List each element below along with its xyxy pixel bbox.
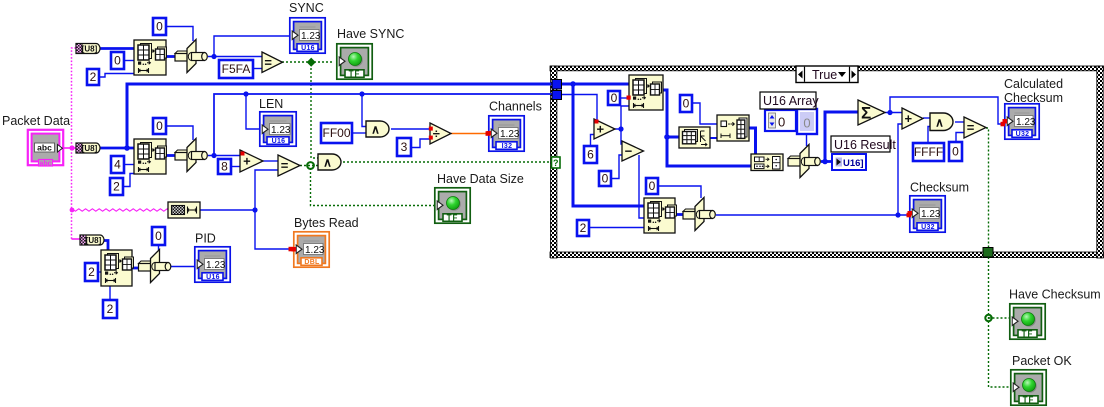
wire: LEN inside case to Add 3	[561, 95, 597, 122]
svg-text:1.23: 1.23	[305, 245, 325, 256]
svg-text:8: 8	[221, 160, 228, 174]
label PID	[195, 232, 216, 246]
svg-text:0: 0	[778, 115, 785, 130]
quotient node	[429, 123, 451, 144]
label Have Checksum	[1009, 288, 1101, 302]
wire: constant 0 to Array Subset 1 index	[124, 60, 134, 62]
string-to-byte-array node 2	[76, 143, 100, 153]
wire: Equal 2 result to Have Data Size	[311, 168, 435, 206]
type cast node 1	[175, 40, 207, 73]
junction: byte array split	[124, 145, 130, 151]
svg-text:1.23: 1.23	[500, 129, 520, 140]
svg-text:FF00: FF00	[322, 126, 350, 140]
wire: constant F5FA to Equal 1	[253, 68, 262, 70]
svg-text:0: 0	[155, 229, 162, 243]
svg-text:+: +	[243, 154, 251, 169]
tunnel: byte array into case	[552, 80, 562, 90]
junction: Add 3 output	[618, 126, 623, 131]
wire: Array Subset 2 to Type Cast 2	[166, 154, 176, 157]
coercion dot Channels	[486, 131, 491, 136]
case structure border	[550, 66, 1104, 258]
wire: Type Cast 3 to Checksum indicator	[716, 214, 910, 216]
svg-text:FFFF: FFFF	[914, 145, 943, 159]
wire: constant 0 to Insert Into Array	[692, 103, 717, 124]
equal node 3	[964, 117, 986, 138]
wire: Type Cast 1 to Equal 1	[214, 56, 262, 58]
svg-text:−: −	[625, 144, 633, 159]
svg-text:Packet OK: Packet OK	[1012, 354, 1072, 368]
svg-text:2: 2	[113, 180, 120, 194]
junction: pink wire to String Length branch	[70, 208, 75, 213]
wire: constant 0 to Type Cast 2 type input	[166, 126, 193, 140]
array subset node 1	[134, 40, 167, 75]
constant 0 (insert into array)	[680, 95, 692, 112]
svg-text:F5FA: F5FA	[222, 62, 251, 76]
case selector label True	[796, 66, 858, 83]
svg-text:0: 0	[683, 97, 690, 111]
wire: checksum value to Add 2	[898, 124, 902, 215]
indicator Calculated Checksum	[1003, 104, 1040, 139]
constant 0 (subtract)	[599, 171, 611, 186]
wire: Array Subset 4 to Type Cast 3	[675, 213, 684, 216]
svg-text:0: 0	[952, 145, 959, 159]
indicator Packet OK	[1011, 370, 1046, 405]
label Have Data Size	[437, 172, 524, 186]
wire: Equal 2 to And 2	[300, 165, 318, 167]
svg-text:I32: I32	[502, 143, 513, 150]
svg-text:Have Data Size: Have Data Size	[437, 172, 524, 186]
wire: constant 8 to Add 1	[231, 166, 240, 168]
label Calculated Checksum line1	[1004, 77, 1063, 91]
svg-text:abc: abc	[39, 160, 51, 167]
add node 1	[240, 150, 263, 172]
constant 0 (subset 3 index)	[608, 91, 620, 105]
svg-text:1.23: 1.23	[921, 209, 941, 220]
svg-text:U16 Array: U16 Array	[763, 94, 819, 108]
constant 0 (type cast 2)	[153, 118, 166, 134]
wire: Type Cast 2 to Add 1	[208, 155, 240, 157]
wire: U16 array to Sum	[825, 112, 858, 162]
string-to-byte-array node 3	[80, 235, 104, 245]
wire: Insert Into Array to Interleave	[749, 128, 756, 154]
label LEN	[259, 97, 283, 111]
svg-text:∧: ∧	[371, 123, 380, 137]
label Packet Data	[2, 114, 70, 128]
junction: Sum output split	[887, 110, 892, 115]
label SYNC	[289, 1, 324, 15]
junction: pink wire at Packet Data branch	[69, 145, 74, 150]
constant 2 (row2 length)	[110, 178, 123, 195]
wire: Add 3 to Array Subset 3 length	[615, 106, 629, 129]
wire: Subtract to Array Subset 4 index	[639, 155, 644, 218]
type cast node 4	[788, 145, 820, 178]
svg-text:Checksum: Checksum	[1004, 91, 1063, 105]
wire: constant 2 to Array Subset 1 length	[99, 74, 134, 78]
wire: LEN branch to LEN indicator	[246, 94, 259, 129]
svg-text:U16: U16	[301, 45, 315, 52]
reshape array node	[679, 127, 710, 148]
constant 2 (subset 5 index)	[85, 263, 98, 281]
wire: Add 2 to And 3	[923, 117, 930, 119]
svg-text:Bytes Read: Bytes Read	[294, 216, 359, 230]
constant 4 (row2 index)	[111, 156, 124, 173]
svg-text:Packet Data: Packet Data	[2, 114, 70, 128]
svg-text:0: 0	[611, 91, 618, 105]
tunnel: case selector terminal	[552, 157, 561, 168]
constant 0 (equal 3)	[949, 142, 962, 161]
svg-text:?: ?	[553, 158, 559, 168]
wire: Type Cast 6 to PID indicator	[171, 266, 196, 268]
svg-text:1.23: 1.23	[271, 125, 291, 136]
wire: Equal 1 result down to And 2	[311, 64, 318, 158]
constant F5FA	[219, 60, 253, 78]
indicator Have SYNC	[337, 44, 372, 79]
add node 3	[594, 119, 615, 139]
junction: Type Cast 4 output split	[822, 159, 828, 165]
junction: boolean wire at Equal 1 output	[307, 58, 316, 67]
svg-text:0: 0	[803, 116, 810, 131]
control Packet Data	[28, 130, 63, 168]
wire: array branch to Reshape Array	[667, 136, 679, 139]
svg-text:Σ: Σ	[861, 104, 871, 123]
svg-text:U16: U16	[272, 138, 286, 145]
svg-text:True: True	[812, 68, 837, 82]
array subset node 3	[629, 75, 663, 110]
junction: boolean wire at Equal 2 output	[307, 162, 314, 169]
wire: constant 2 to Array Subset 5 index	[98, 271, 101, 273]
constant FF00	[321, 123, 352, 143]
wire: constant 2 to Array Subset 4 length	[589, 227, 644, 229]
wire: Array Subset 1 to Type Cast 1	[166, 55, 176, 58]
label Channels	[489, 100, 542, 114]
indicator Have Data Size	[435, 188, 470, 223]
wire: string branch to String Length	[72, 209, 168, 211]
wire: Type Cast 1 to SYNC indicator	[208, 36, 289, 57]
svg-text:0: 0	[602, 172, 609, 186]
junction: Type Cast 2 output	[211, 153, 216, 158]
coercion dot Bytes Read	[289, 247, 294, 252]
svg-text:=: =	[264, 55, 272, 70]
wire: byte array inside case to Array Subset 3	[561, 83, 629, 86]
and node 3	[930, 113, 953, 131]
svg-text:Channels: Channels	[489, 100, 542, 114]
svg-text:2: 2	[107, 302, 114, 316]
svg-text:1.23: 1.23	[206, 260, 226, 271]
equal node 2	[278, 155, 300, 176]
wire: byte array row2 to Array Subset 2	[100, 147, 134, 150]
wire: And 1 to Quotient	[391, 128, 430, 130]
subtract node	[622, 141, 644, 161]
wire: Sum result to Calculated Checksum	[890, 97, 1005, 124]
constant 2 (subset 5 length)	[103, 300, 117, 318]
string length node	[168, 202, 200, 218]
svg-text:÷: ÷	[433, 126, 440, 141]
wire: Reshape Array to Insert Into Array	[710, 137, 717, 139]
wire: And 2 to case selector	[343, 161, 552, 163]
wire: constant 0 to Array Subset 3 index	[620, 97, 629, 99]
constant 0 (type cast 3)	[646, 178, 658, 194]
svg-text:U16]: U16]	[843, 158, 864, 169]
label Packet OK	[1012, 354, 1072, 368]
svg-text:TF: TF	[1022, 330, 1034, 339]
coercion dot Array Subset 3 index	[627, 96, 631, 100]
svg-text:Calculated: Calculated	[1004, 77, 1063, 91]
constant 0 (row1 index)	[111, 52, 124, 69]
indicator Checksum	[908, 196, 946, 232]
wire: constant 0 to Type Cast 1 type input	[166, 27, 193, 42]
type cast node 6	[139, 250, 171, 283]
constant 0 (type cast 6)	[152, 227, 165, 245]
svg-text:TF: TF	[349, 70, 361, 79]
svg-text:DBL: DBL	[304, 259, 320, 266]
svg-text:U16 Result: U16 Result	[834, 138, 896, 152]
svg-text:0: 0	[114, 54, 121, 68]
label Have SYNC	[337, 27, 404, 41]
wire: Packet Data string branch (vertical)	[72, 48, 77, 239]
svg-text:1.23: 1.23	[301, 31, 321, 42]
indicator terminal U16 Result	[832, 154, 866, 170]
wire: And 3 to Equal 3	[955, 121, 964, 123]
wire: Array Subset 5 to Type Cast 6	[132, 267, 139, 270]
svg-text:[U8]: [U8]	[82, 144, 98, 153]
svg-text:U16: U16	[206, 274, 220, 281]
coercion dot Calculated Checksum	[1001, 122, 1006, 127]
type cast node 3	[683, 198, 715, 231]
svg-text:=: =	[281, 158, 289, 173]
array subset node 5	[101, 250, 134, 286]
junction: Type Cast 3 output split	[895, 212, 900, 217]
svg-text:0: 0	[156, 119, 163, 133]
svg-text:0: 0	[649, 179, 656, 193]
label Calculated Checksum line2	[1004, 91, 1063, 105]
wire: constant 0 to Type Cast 6 type input	[158, 245, 160, 250]
wire: Add 3 result to Subtract	[621, 129, 623, 144]
svg-text:SYNC: SYNC	[289, 1, 324, 15]
label Bytes Read	[294, 216, 359, 230]
svg-text:PID: PID	[195, 232, 216, 246]
svg-text:Have SYNC: Have SYNC	[337, 27, 404, 41]
type cast node 2	[175, 139, 207, 172]
constant 8	[218, 159, 231, 174]
wire: Sum to Add 2	[885, 112, 902, 114]
svg-text:+: +	[597, 122, 605, 137]
junction: byte array split inside case	[570, 81, 576, 87]
svg-text:2: 2	[580, 221, 587, 235]
sum node	[858, 100, 885, 125]
svg-text:TF: TF	[1023, 396, 1035, 405]
constant 0 (type cast 1)	[153, 18, 166, 35]
wire: byte array row3 to Array Subset 5	[103, 241, 108, 252]
wire: byte array to Array Subset 4	[573, 84, 644, 206]
constant 2 (row1 length)	[87, 69, 99, 85]
junction: String Length output split	[252, 207, 257, 212]
svg-text:2: 2	[88, 265, 95, 279]
svg-text:6: 6	[587, 148, 594, 162]
tunnel: LEN into case	[552, 91, 562, 100]
tunnel: boolean out of case bottom	[983, 248, 993, 258]
wire: Type Cast 4 to U16 Result	[821, 160, 832, 163]
wire: Equal 3 to case tunnel	[986, 128, 989, 248]
svg-text:∧: ∧	[323, 156, 332, 170]
svg-text:Checksum: Checksum	[910, 181, 969, 195]
svg-text:∧: ∧	[935, 115, 944, 129]
svg-text:+: +	[905, 111, 913, 126]
boxed label U16 Result	[831, 136, 896, 152]
wire: constant 2 to Array Subset 2 length	[123, 174, 134, 187]
constant 3	[397, 138, 411, 156]
wire: constant 0 to Subtract	[611, 155, 623, 179]
constant U16 Array	[765, 109, 817, 134]
wire: constant 2 to Array Subset 5 length	[109, 286, 111, 300]
junction: boolean wire at Have Checksum branch	[985, 315, 991, 321]
wire: byte array row1 to Array Subset 1	[100, 47, 134, 50]
array subset node 4	[644, 198, 677, 233]
constant 2 (subset 4 length)	[577, 220, 589, 236]
wire: string branch to String-to-Byte-Array 3	[72, 238, 82, 240]
wire: byte array main run into case structure	[127, 84, 552, 148]
svg-text:1.23: 1.23	[1016, 117, 1036, 128]
svg-text:LEN: LEN	[259, 97, 283, 111]
junction: LEN wire at indicator branch	[243, 91, 248, 96]
wire: constant 4 to Array Subset 2 index	[124, 164, 134, 166]
wire: Packet Data to String-to-Byte-Array 2	[63, 147, 77, 149]
svg-text:=: =	[967, 120, 975, 135]
wire: Quotient to Channels indicator	[451, 133, 488, 135]
svg-text:[U8]: [U8]	[82, 45, 98, 54]
wire: constant 0 to Type Cast 3 type input	[658, 186, 701, 198]
wire: constant 3 to Quotient	[411, 139, 430, 148]
svg-text:abc: abc	[37, 143, 52, 153]
and node 2	[318, 154, 341, 170]
junction: Type Cast 1 output	[211, 54, 216, 59]
junction: LEN wire at And 1 branch	[359, 91, 364, 96]
svg-text:0: 0	[156, 20, 163, 34]
wire: LEN value run to case structure	[214, 94, 552, 156]
svg-text:[U8]: [U8]	[86, 236, 102, 245]
wire: Equal 1 to Have SYNC	[282, 61, 334, 63]
coercion dot Checksum	[907, 213, 912, 218]
indicator LEN	[260, 112, 296, 146]
svg-text:TF: TF	[447, 214, 459, 223]
svg-text:4: 4	[114, 158, 121, 172]
wire: String Length to Bytes Read	[255, 210, 291, 249]
indicator SYNC	[290, 18, 325, 53]
wire: U16 Array constant to Type Cast 4 type input	[806, 134, 808, 146]
and node 1	[366, 121, 389, 137]
wire: Array Subset 3 to Interleave	[663, 90, 751, 166]
wire: LEN branch to And 1	[362, 94, 366, 127]
wire: constant FFFF to And 3	[928, 127, 930, 144]
interleave arrays node	[751, 154, 783, 171]
indicator Bytes Read	[292, 232, 330, 267]
string-to-byte-array node 1	[76, 44, 100, 54]
svg-text:Have Checksum: Have Checksum	[1009, 288, 1101, 302]
boxed label U16 Array	[760, 92, 819, 109]
wire: checksum ok to Packet OK	[989, 257, 1012, 387]
svg-text:3: 3	[401, 140, 408, 154]
wire: constant 0 to Equal 3	[956, 133, 964, 143]
svg-text:U32: U32	[1016, 131, 1030, 138]
indicator Channels	[487, 116, 525, 151]
label Checksum	[910, 181, 969, 195]
wire: constant FF00 to And 1	[352, 132, 366, 134]
add node 2	[902, 108, 923, 129]
wire: constant 6 to Add 3	[591, 135, 595, 147]
svg-text:2: 2	[90, 70, 97, 84]
indicator PID	[195, 247, 230, 282]
junction: array wire at Reshape branch	[664, 134, 670, 140]
equal node 1	[262, 52, 283, 73]
wire: Add 1 to Equal 2	[263, 160, 278, 162]
constant FFFF	[913, 143, 944, 161]
insert into array node	[717, 115, 749, 141]
constant 6	[584, 146, 597, 163]
indicator Have Checksum	[1010, 304, 1045, 339]
svg-text:U32: U32	[921, 224, 935, 231]
wire: checksum ok to Have Checksum	[989, 317, 1011, 319]
wire: String Length to Equal 2	[200, 170, 278, 210]
array subset node 2	[134, 139, 167, 174]
